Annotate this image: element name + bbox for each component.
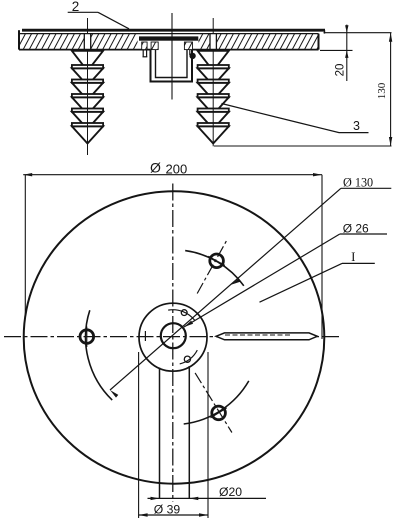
- plate bottom edge left part: [19, 49, 151, 51]
- dim 200 left extension: [24, 175, 26, 317]
- screw hole H3 (lower right): [212, 406, 226, 420]
- dim 200 right extension: [321, 175, 323, 339]
- bolt-circle arc C (lower right): [184, 381, 249, 424]
- hub outer circle: [139, 303, 207, 371]
- hub bolt-circle left tick: [144, 331, 146, 341]
- hub vertical centerline (section): [171, 13, 173, 100]
- svg-text:2: 2: [72, 0, 80, 14]
- label 3 leader: [222, 104, 369, 133]
- hub collar left section block: [142, 42, 147, 50]
- label 1 underline: [342, 262, 375, 264]
- screw hole H2 (left): [80, 330, 94, 344]
- dim 130 arrow top: [389, 33, 392, 42]
- dim 130 plan leader: [110, 188, 341, 390]
- plate right end edge: [318, 34, 320, 50]
- svg-text:3: 3: [353, 119, 360, 133]
- screw right tip centerline: [212, 144, 214, 147]
- horizontal centerline: [4, 336, 340, 338]
- plate section hatched body: [19, 34, 319, 50]
- right screw shank cut-out: [210, 34, 217, 50]
- dim 39 arrow left: [139, 513, 148, 516]
- hub cup left wall section block: [151, 42, 158, 50]
- svg-text:Ø 130: Ø 130: [343, 176, 373, 190]
- hub cup right wall section block: [184, 42, 192, 50]
- svg-text:200: 200: [166, 162, 188, 177]
- blade slot outline: [216, 333, 317, 340]
- bolt-circle arc B (left): [86, 310, 113, 400]
- hub flange plate (blackened thin section): [139, 36, 198, 40]
- dim 130 plan underline: [341, 187, 391, 189]
- plate bottom edge right part: [192, 49, 319, 51]
- screw hole H1 (upper right): [210, 254, 224, 268]
- label 1 leader: [260, 263, 343, 302]
- dim 200 arrow left: [23, 173, 32, 176]
- dim 130 line: [390, 33, 392, 146]
- blade slot hidden line: [225, 334, 290, 336]
- dim 39 line: [139, 514, 208, 516]
- hub bore circle Ø26: [161, 323, 186, 348]
- H3 cross tick: [211, 408, 227, 418]
- dim 200 arrow right: [313, 173, 322, 176]
- hub small hole lower: [184, 356, 190, 362]
- hub fastener stub left: [142, 50, 144, 57]
- H1 cross tick: [208, 256, 225, 265]
- channel right edge: [188, 366, 190, 498]
- H1 radial centerline: [197, 238, 228, 293]
- dim 130 plan arrow upper: [231, 279, 240, 285]
- dim 20 plan arrow left: [151, 497, 160, 500]
- H3 radial centerline: [195, 373, 232, 433]
- dim 20 line: [346, 25, 348, 81]
- screw right (section): [212, 18, 214, 34]
- plate top edge (thick): [22, 29, 325, 32]
- dim 20 top extension line: [324, 32, 392, 34]
- hub fastener stub right: [189, 50, 191, 55]
- vertical centerline: [172, 184, 174, 503]
- dim 26 arrow: [184, 321, 193, 327]
- hub socket cup outer: [151, 50, 193, 82]
- dim 20 arrow bottom: [345, 50, 348, 58]
- svg-text:Ø20: Ø20: [219, 485, 242, 499]
- hub bolt-circle arc upper: [168, 310, 195, 321]
- screw left tip centerline: [87, 144, 89, 156]
- svg-text:Ø: Ø: [150, 160, 161, 176]
- hub socket cup inner: [156, 50, 188, 78]
- H2 vertical tick: [86, 327, 88, 348]
- left screw shank cut-out: [84, 34, 91, 50]
- dim 200 line: [23, 174, 322, 176]
- plate hatch top line: [19, 33, 319, 35]
- dim 39 left extension: [138, 352, 140, 518]
- svg-text:Ø 26: Ø 26: [343, 222, 369, 236]
- dim 130 arrow bottom: [389, 137, 392, 146]
- svg-text:20: 20: [335, 64, 347, 77]
- dim 20 bottom extension line: [320, 49, 353, 51]
- channel left edge: [159, 368, 161, 499]
- dim 39 arrow right: [199, 513, 208, 516]
- hub bolt-circle arc lower: [180, 350, 198, 364]
- hub flange cut-out in plate: [138, 33, 199, 50]
- hub fastener dot: [190, 53, 195, 58]
- dim 26 leader: [184, 234, 340, 327]
- dim 20 arrow top: [345, 25, 348, 33]
- dim 39 right extension: [207, 352, 209, 518]
- disc outer circle: [24, 191, 325, 483]
- hub small hole upper: [181, 310, 187, 316]
- dim 20 plan arrow right: [189, 497, 198, 500]
- dim 130 plan arrow lower: [110, 390, 118, 398]
- bolt-circle arc A (upper right): [185, 251, 244, 286]
- plate left end edge: [18, 30, 20, 49]
- label 2 leader: [68, 11, 98, 13]
- screw left (section): [87, 18, 89, 34]
- plate right top band end: [324, 30, 326, 33]
- dim 130 bottom extension line: [214, 145, 392, 147]
- svg-text:Ø 39: Ø 39: [154, 503, 181, 517]
- dim 26 underline: [340, 233, 387, 235]
- svg-text:I: I: [351, 249, 355, 264]
- dim 20 plan line: [148, 497, 267, 499]
- svg-text:130: 130: [376, 82, 388, 99]
